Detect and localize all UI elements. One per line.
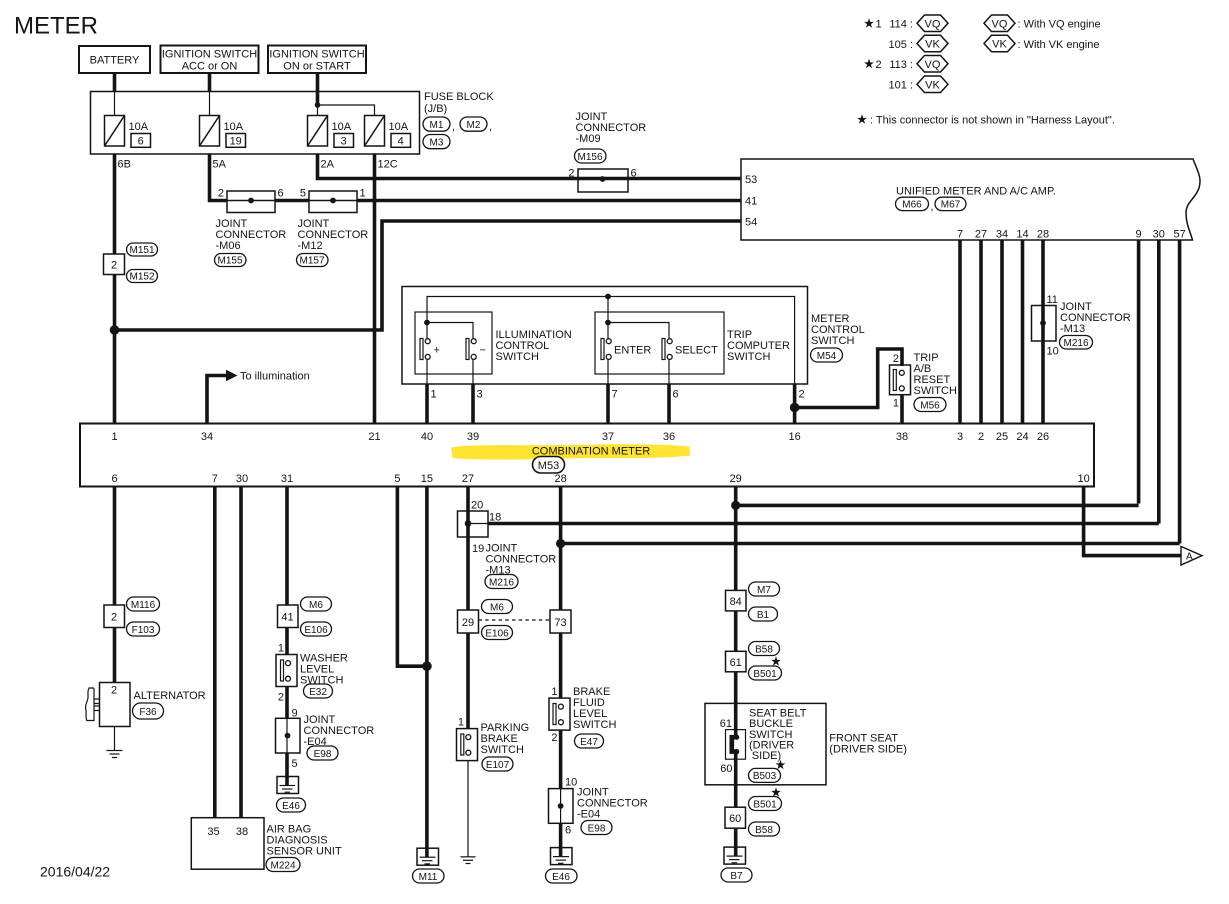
star B501 lower: [771, 787, 781, 796]
wire meter 5 down to join 15: [397, 487, 427, 667]
svg-text:40: 40: [421, 431, 433, 443]
svg-text:15: 15: [421, 473, 433, 485]
wire unified 27 to meter 2: [979, 240, 983, 424]
wire meter 27 down: [466, 487, 470, 729]
fuse 10A 4: [365, 116, 411, 148]
svg-text:-M12: -M12: [298, 240, 323, 252]
svg-text:61: 61: [730, 657, 742, 669]
connector M2: [460, 117, 492, 133]
svg-text:34: 34: [201, 431, 213, 443]
note 101 : VK: [889, 76, 948, 93]
svg-text:M6: M6: [309, 600, 323, 611]
svg-text:M157: M157: [299, 256, 324, 267]
connector box 84: [726, 590, 747, 611]
svg-text:2: 2: [111, 685, 117, 697]
svg-text:84: 84: [730, 596, 742, 608]
svg-text:2: 2: [218, 188, 224, 200]
svg-text:M3: M3: [430, 137, 444, 148]
svg-text:SELECT: SELECT: [675, 345, 718, 357]
wire pin7 stub: [607, 360, 609, 384]
joint connector E04 box left: [276, 718, 301, 753]
wire stub ACC to fuse2: [209, 92, 211, 116]
wire pin3 stub: [472, 360, 474, 384]
wire unified 57 down: [1178, 240, 1182, 544]
svg-text:31: 31: [281, 473, 293, 485]
wire unified 14 to meter 24: [1021, 240, 1025, 424]
svg-text:9: 9: [1136, 229, 1142, 241]
wire 38 to meter: [900, 395, 904, 424]
svg-text:E46: E46: [282, 801, 300, 812]
label joint connector M06: [216, 218, 287, 252]
svg-text:SWITCH: SWITCH: [573, 719, 616, 731]
wire 36 to meter: [667, 384, 671, 424]
svg-text:7: 7: [957, 229, 963, 241]
svg-text:2016/04/22: 2016/04/22: [40, 864, 110, 880]
svg-text:3: 3: [477, 389, 483, 401]
wire unified 7 to meter 3: [958, 240, 962, 424]
svg-text:6: 6: [631, 168, 637, 180]
label washer level switch: [300, 653, 348, 687]
svg-text:E46: E46: [552, 872, 570, 883]
connector E46 right: [546, 869, 578, 883]
svg-text:(DRIVER SIDE): (DRIVER SIDE): [829, 743, 907, 755]
connector E106 left: [301, 622, 332, 636]
wire 9 horizontal: [736, 504, 1139, 508]
svg-text:-M06: -M06: [216, 240, 241, 252]
svg-text:M66: M66: [902, 200, 922, 211]
wire 41 to washer switch: [285, 628, 289, 655]
svg-text:38: 38: [896, 431, 908, 443]
svg-text:E98: E98: [588, 823, 606, 834]
svg-text:7: 7: [612, 389, 618, 401]
wire ill switch common: [424, 320, 473, 339]
ground box M11: [417, 848, 439, 865]
svg-text:19: 19: [472, 543, 484, 555]
svg-text:B501: B501: [753, 669, 777, 680]
connector F36: [133, 703, 164, 719]
wire seat belt lower: [734, 752, 738, 808]
svg-text:16: 16: [788, 431, 800, 443]
connector box 41 (M6/E106): [278, 605, 299, 628]
svg-text:VK: VK: [992, 39, 1007, 51]
svg-text:36: 36: [663, 431, 675, 443]
wire E04 right to ground: [559, 823, 563, 856]
svg-text:3: 3: [957, 431, 963, 443]
svg-text:37: 37: [602, 431, 614, 443]
svg-text:113 :: 113 :: [889, 59, 913, 71]
wire unified 9 down: [1137, 240, 1141, 504]
svg-text:5: 5: [394, 473, 400, 485]
combination meter highlight: [451, 444, 691, 459]
svg-text:5: 5: [300, 188, 306, 200]
fuse 10A 3: [308, 116, 354, 148]
dashed link 29 to 73: [479, 619, 551, 621]
wire START to junction: [316, 73, 320, 105]
connector B7: [721, 868, 752, 882]
svg-text:54: 54: [745, 217, 757, 229]
connector M116: [127, 597, 160, 611]
connector E107: [482, 757, 513, 771]
svg-text:E47: E47: [580, 737, 598, 748]
svg-text:M53: M53: [538, 460, 559, 472]
to illumination arrow: [207, 370, 310, 424]
svg-text:M67: M67: [941, 200, 961, 211]
fuse 10A 19: [200, 116, 246, 148]
connector M53: [533, 457, 565, 474]
seat belt buckle contact: [732, 735, 740, 755]
wire meter 31 down: [285, 487, 289, 606]
connector E98 left: [307, 746, 338, 760]
svg-text:19: 19: [230, 135, 242, 147]
wire pin1 stub: [426, 360, 428, 384]
connector F103: [127, 622, 160, 636]
wire 16 to meter: [793, 384, 797, 424]
svg-text:SENSOR UNIT: SENSOR UNIT: [267, 846, 342, 858]
label trip A/B reset switch: [914, 352, 957, 397]
svg-text:VK: VK: [925, 79, 940, 91]
svg-text:2: 2: [799, 389, 805, 401]
svg-text:B501: B501: [753, 799, 777, 810]
svg-text:M2: M2: [467, 120, 481, 131]
svg-text:10A: 10A: [224, 121, 244, 133]
wire meter 30 down: [239, 487, 243, 818]
wire 54 branch horizontal: [115, 221, 742, 330]
brake fluid level switch: [549, 698, 570, 730]
connector B58 upper: [749, 642, 780, 656]
svg-text:38: 38: [236, 826, 248, 838]
connector E47: [575, 734, 604, 748]
wire branch to fuse4: [318, 105, 375, 116]
fuse 10A 6: [105, 116, 151, 148]
svg-text:1: 1: [458, 717, 464, 729]
joint connector M09 box: [578, 169, 628, 192]
wire 18 horizontal to unified 30: [468, 523, 488, 525]
svg-text:E106: E106: [304, 625, 328, 636]
svg-text:SWITCH: SWITCH: [914, 385, 957, 397]
connector M155: [215, 254, 247, 267]
svg-text:28: 28: [1037, 229, 1049, 241]
wire pin6 stub: [668, 360, 670, 384]
svg-text:IGNITION SWITCH: IGNITION SWITCH: [269, 49, 364, 61]
svg-text:1: 1: [278, 643, 284, 655]
svg-text:M56: M56: [920, 400, 940, 411]
label seat belt buckle switch: [749, 707, 807, 762]
svg-text:27: 27: [462, 473, 474, 485]
connector M56: [914, 398, 946, 412]
wire ACC to fuse block: [208, 73, 212, 92]
wire meter 29 down: [734, 487, 738, 704]
svg-text:-E04: -E04: [577, 809, 600, 821]
svg-text:10: 10: [1077, 473, 1089, 485]
wire M06 to M12: [275, 199, 309, 203]
svg-text:2: 2: [111, 260, 117, 272]
connector B58 lower: [749, 822, 780, 836]
wire meter 6 down: [113, 487, 117, 606]
svg-text:14: 14: [1016, 229, 1028, 241]
wire unified 28 to meter 26: [1041, 240, 1045, 424]
svg-text:2: 2: [111, 612, 117, 624]
wire meter 10 to arrow A: [1084, 487, 1181, 556]
svg-text:VQ: VQ: [992, 18, 1008, 30]
wire E04 to ground E46: [285, 753, 289, 778]
svg-text:1: 1: [431, 389, 437, 401]
svg-text:1: 1: [551, 686, 557, 698]
svg-text:2: 2: [551, 732, 557, 744]
joint connector M12 box: [309, 191, 357, 213]
connector M151: [127, 243, 158, 256]
svg-text:−: −: [480, 345, 486, 357]
joint connector E04 box right: [549, 789, 574, 824]
svg-text:41: 41: [745, 196, 757, 208]
svg-text:M116: M116: [131, 600, 156, 611]
svg-text:26: 26: [1037, 431, 1049, 443]
svg-text:24: 24: [1016, 431, 1028, 443]
wire 5A to joint connector M06: [210, 154, 228, 201]
connector box 73: [550, 610, 571, 633]
svg-text:34: 34: [996, 229, 1008, 241]
svg-text:1: 1: [360, 188, 366, 200]
seat belt buckle switch outer box: [705, 703, 826, 784]
wire 41 M12 to unified meter: [357, 199, 741, 203]
connector M6 mid: [482, 600, 513, 614]
svg-text:-M09: -M09: [576, 133, 601, 145]
svg-text:M152: M152: [129, 272, 154, 283]
joint connector M06 box: [227, 191, 275, 213]
svg-text:FUSE BLOCK: FUSE BLOCK: [424, 91, 494, 103]
svg-text:: With VQ engine: : With VQ engine: [1018, 19, 1101, 31]
connector M11: [413, 869, 445, 883]
junction dot battery/54: [110, 325, 120, 335]
svg-text:SWITCH: SWITCH: [496, 351, 539, 363]
svg-text:-M13: -M13: [1060, 323, 1085, 335]
ground box E46 left: [277, 777, 299, 794]
svg-text:1: 1: [876, 19, 882, 31]
connector M156: [575, 149, 607, 163]
svg-text:28: 28: [554, 473, 566, 485]
svg-text:F103: F103: [132, 625, 155, 636]
wire stub START to fuse3: [317, 105, 319, 116]
svg-text:BATTERY: BATTERY: [90, 55, 140, 67]
svg-text:M54: M54: [817, 351, 837, 362]
svg-text:A: A: [1186, 552, 1193, 563]
junction dot pin16: [790, 403, 800, 413]
svg-text:20: 20: [471, 500, 483, 512]
label illumination control switch: [496, 329, 572, 363]
svg-text:41: 41: [281, 612, 293, 624]
connector B501 lower: [749, 797, 782, 811]
switch ENTER contact: [601, 339, 651, 360]
svg-text:10A: 10A: [389, 121, 409, 133]
svg-text:M156: M156: [577, 152, 602, 163]
svg-text:10A: 10A: [332, 121, 352, 133]
connector M54: [811, 348, 843, 362]
svg-text:6: 6: [565, 825, 571, 837]
fuse block label: [424, 91, 494, 115]
joint connector M13 box (top right): [1032, 306, 1057, 342]
svg-text:E32: E32: [309, 687, 327, 698]
svg-text:ACC or ON: ACC or ON: [182, 61, 238, 73]
connector box 2 (M151/M152): [104, 254, 125, 275]
connector B1: [749, 607, 778, 621]
wire meter 28 down: [559, 487, 563, 699]
svg-text:6: 6: [111, 473, 117, 485]
svg-text:21: 21: [368, 431, 380, 443]
svg-text:,: ,: [452, 121, 455, 133]
svg-text:12C: 12C: [378, 159, 398, 171]
svg-text:(J/B): (J/B): [424, 103, 447, 115]
meter control switch outer box: [402, 287, 808, 385]
svg-text:M224: M224: [270, 860, 295, 871]
unified meter and A/C amp box: [741, 159, 1200, 240]
connector E46 left: [277, 798, 306, 812]
connector M224: [266, 858, 300, 872]
wire 60 to ground B7: [734, 828, 738, 856]
trip A/B reset switch box: [890, 365, 911, 395]
ground parking: [461, 857, 476, 864]
wire unified 34 to meter 25: [1000, 240, 1004, 424]
svg-text:B58: B58: [755, 644, 773, 655]
connector M66: [896, 197, 934, 213]
legend VK : With VK engine: [984, 35, 1099, 52]
wire parking to ground: [467, 761, 469, 857]
connector M67: [935, 197, 966, 210]
svg-text:ENTER: ENTER: [614, 345, 651, 357]
wire 39 to meter: [471, 384, 475, 424]
svg-text:SWITCH: SWITCH: [811, 335, 854, 347]
parking brake switch: [457, 729, 478, 761]
note *1 star: [864, 18, 882, 30]
wire brake fluid to E04: [559, 730, 563, 789]
air bag diagnosis sensor unit box: [191, 818, 264, 870]
label parking brake switch: [481, 722, 530, 756]
washer level switch: [276, 655, 297, 687]
connector M3: [423, 135, 450, 149]
connector box 60: [725, 807, 746, 828]
svg-text:5A: 5A: [213, 159, 227, 171]
svg-text:VK: VK: [925, 39, 940, 51]
connector E106 mid: [482, 626, 513, 640]
svg-text:E106: E106: [485, 628, 509, 639]
svg-text:To illumination: To illumination: [240, 371, 310, 383]
svg-text:1: 1: [893, 398, 899, 410]
svg-text:60: 60: [729, 813, 741, 825]
junction dot START branch: [315, 102, 321, 108]
svg-text:ON or START: ON or START: [283, 61, 351, 73]
svg-text:,: ,: [489, 121, 492, 133]
star B503: [776, 760, 786, 769]
wire 37 to meter: [606, 384, 610, 424]
connector box 29: [458, 610, 479, 633]
svg-text:5: 5: [292, 758, 298, 770]
wire to trip reset switch: [795, 349, 902, 408]
svg-text:E107: E107: [486, 760, 510, 771]
note 113 : VQ: [889, 56, 948, 73]
svg-text:M1: M1: [430, 120, 444, 131]
svg-text:,: ,: [931, 201, 934, 213]
svg-text:2: 2: [978, 431, 984, 443]
ignition switch ACC box: [161, 46, 259, 74]
svg-text:6: 6: [278, 188, 284, 200]
svg-text:61: 61: [720, 718, 732, 730]
ground box E46 right: [551, 848, 573, 865]
svg-text:M216: M216: [1063, 338, 1088, 349]
svg-text:VQ: VQ: [925, 59, 941, 71]
svg-text:57: 57: [1173, 229, 1185, 241]
svg-text:1: 1: [111, 431, 117, 443]
label joint connector M13 low: [486, 543, 557, 577]
wire through seat belt switch: [734, 703, 738, 737]
wire 2A to unified meter 53: [318, 154, 742, 179]
svg-text:2A: 2A: [321, 159, 335, 171]
label joint connector M13 top right: [1060, 301, 1131, 335]
svg-text:30: 30: [1153, 229, 1165, 241]
svg-text:B503: B503: [753, 771, 777, 782]
wire trunk below box2 to junction: [113, 275, 117, 424]
svg-text:11: 11: [1047, 294, 1058, 306]
svg-text:M151: M151: [129, 245, 154, 256]
arrow A: [1181, 547, 1202, 566]
svg-text:B58: B58: [755, 825, 773, 836]
label joint connector E04 left: [304, 714, 375, 748]
svg-text:: With VK engine: : With VK engine: [1018, 39, 1100, 51]
svg-text:M11: M11: [419, 872, 438, 883]
svg-text:M6: M6: [490, 602, 504, 613]
svg-text:2: 2: [568, 168, 574, 180]
wire 57 horizontal: [561, 542, 1180, 546]
svg-text:2: 2: [893, 353, 899, 365]
label joint connector E04 right: [577, 787, 648, 821]
svg-text:25: 25: [996, 431, 1008, 443]
alternator pulley symbol: [86, 688, 100, 721]
svg-text:27: 27: [975, 229, 987, 241]
svg-text:35: 35: [207, 826, 219, 838]
svg-text:6B: 6B: [118, 159, 131, 171]
svg-text:ALTERNATOR: ALTERNATOR: [134, 690, 206, 702]
star B501 upper: [771, 656, 781, 665]
wire meter 15 down to ground M11: [425, 487, 429, 858]
svg-text:B7: B7: [730, 871, 743, 882]
trip computer switch box: [595, 312, 724, 374]
ground box B7: [724, 847, 746, 864]
svg-text:M155: M155: [217, 256, 242, 267]
svg-text:10: 10: [1047, 346, 1059, 358]
svg-text:105 :: 105 :: [889, 39, 913, 51]
label joint connector M09: [576, 111, 647, 145]
svg-text:METER: METER: [14, 13, 98, 40]
svg-text:2: 2: [278, 692, 284, 704]
svg-text:6: 6: [673, 389, 679, 401]
connector M6 left: [301, 597, 332, 611]
battery box: [79, 46, 150, 73]
connector M216 low: [485, 575, 518, 589]
connector E32: [304, 684, 333, 698]
connector M152: [127, 270, 158, 283]
connector E98 right: [581, 821, 612, 835]
note star harness layout: [857, 114, 1115, 126]
connector M7: [749, 582, 780, 596]
svg-text:2: 2: [876, 59, 882, 71]
alternator box: [100, 683, 131, 727]
note *2 star: [864, 59, 882, 71]
label trip computer switch: [727, 329, 790, 363]
svg-text:SWITCH: SWITCH: [481, 744, 524, 756]
svg-text:M7: M7: [757, 585, 771, 596]
connector B503: [749, 768, 781, 782]
svg-text:3: 3: [341, 135, 347, 147]
svg-text:4: 4: [398, 135, 404, 147]
wire washer to E04: [285, 687, 289, 719]
joint connector M13 box low: [458, 511, 489, 537]
